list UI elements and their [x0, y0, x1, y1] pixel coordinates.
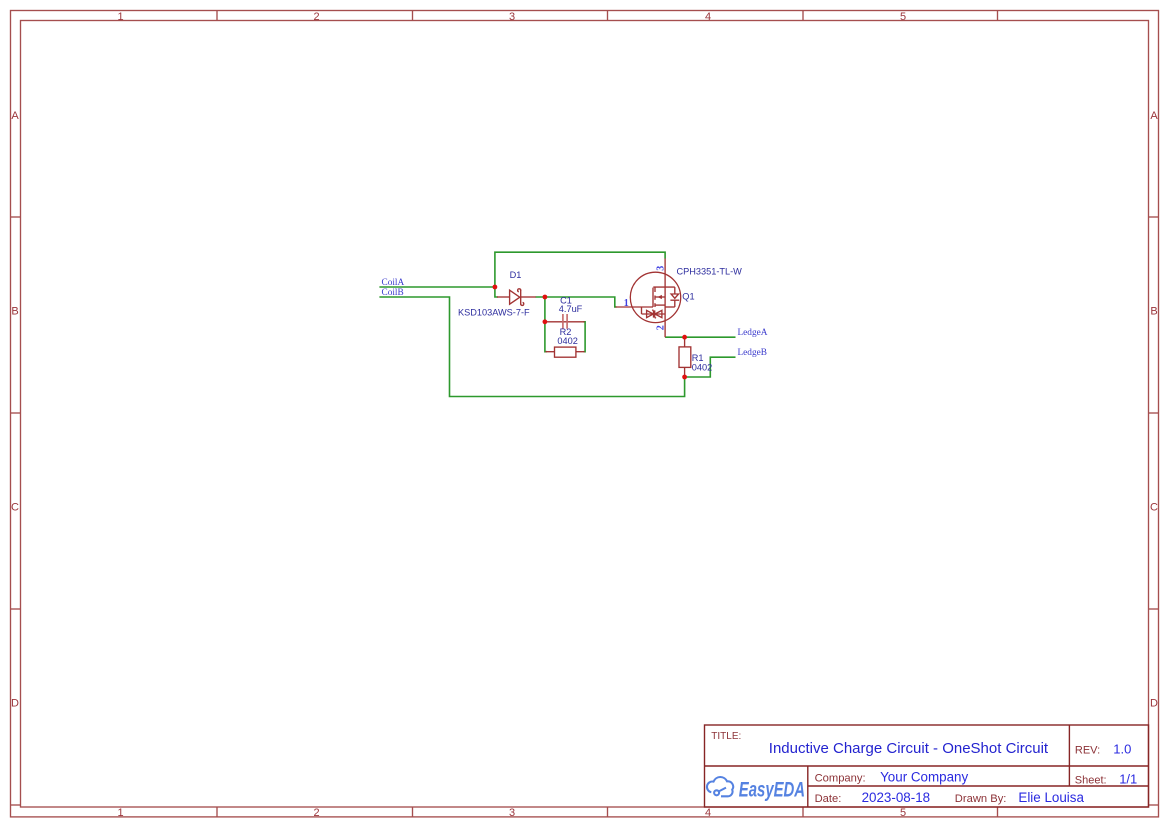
body diode lower stub	[674, 300, 676, 307]
title block outline	[705, 725, 1149, 807]
esd right triangle	[655, 310, 662, 317]
svg-text:3: 3	[509, 11, 515, 23]
wire diode cathode to node B to gate step	[536, 297, 617, 307]
center vertical	[664, 287, 666, 297]
junction node D LedgeA/R1	[682, 335, 687, 340]
transistor Q1 CPH3351 body circle	[630, 272, 680, 322]
svg-text:LedgeA: LedgeA	[738, 328, 768, 338]
frame bottom ticks	[217, 807, 998, 817]
resistor R1	[679, 337, 691, 377]
svg-text:2: 2	[313, 11, 319, 23]
svg-text:0402: 0402	[557, 336, 577, 346]
diode D1 (schottky KSD103AWS)	[497, 289, 536, 306]
svg-text:1/1: 1/1	[1119, 772, 1137, 787]
frame left ticks	[11, 217, 21, 805]
source pin vertical	[664, 297, 666, 337]
wire top rail node A to Q1 drain	[495, 252, 665, 287]
pin3 drain lead	[664, 259, 666, 288]
channel dash middle	[654, 296, 656, 300]
svg-text:Date:: Date:	[815, 793, 842, 805]
body diode upper stub	[674, 287, 676, 294]
junction node E R1 bottom	[682, 375, 687, 380]
gate pin lead	[616, 306, 654, 308]
EasyEDA logo cloud	[707, 777, 733, 796]
svg-text:CPH3351-TL-W: CPH3351-TL-W	[677, 267, 743, 277]
svg-text:Company:: Company:	[815, 773, 866, 785]
svg-text:TITLE:: TITLE:	[711, 731, 741, 742]
gate bar	[652, 288, 654, 307]
svg-text:1: 1	[624, 298, 629, 309]
svg-text:4.7uF: 4.7uF	[559, 304, 583, 314]
wire LedgeA	[665, 336, 735, 338]
body line	[655, 296, 665, 298]
svg-text:1: 1	[117, 807, 123, 819]
esd line	[642, 313, 666, 315]
svg-text:Elie Louisa: Elie Louisa	[1018, 790, 1084, 805]
svg-text:4: 4	[705, 11, 711, 23]
svg-text:D: D	[1150, 698, 1158, 710]
wire C1 right side down to R2 right	[584, 322, 586, 352]
svg-text:Sheet:: Sheet:	[1075, 775, 1107, 787]
svg-text:3: 3	[509, 807, 515, 819]
body arrow	[657, 295, 662, 299]
wire node B down through node C to R2 left	[545, 297, 547, 352]
svg-text:D: D	[11, 698, 19, 710]
junction node A	[493, 285, 498, 290]
wire node A down to diode level	[495, 287, 498, 297]
channel dash bottom	[654, 303, 656, 307]
EasyEDA logo text	[739, 778, 805, 801]
frame column labels bottom	[117, 807, 906, 819]
svg-text:REV:: REV:	[1075, 745, 1100, 757]
wire CoilB run	[379, 297, 684, 397]
svg-text:3: 3	[656, 266, 667, 271]
frame row labels right	[1150, 110, 1158, 710]
frame column labels top	[117, 11, 906, 23]
svg-text:Your Company: Your Company	[880, 770, 968, 785]
frame top ticks	[217, 11, 998, 21]
wire CoilA horizontal	[379, 286, 495, 288]
svg-text:2023-08-18: 2023-08-18	[862, 790, 931, 805]
capacitor C1	[546, 314, 585, 329]
frame row labels left	[11, 110, 19, 710]
svg-text:4: 4	[705, 807, 711, 819]
svg-text:5: 5	[900, 807, 906, 819]
esd left triangle	[647, 310, 654, 317]
svg-text:0402: 0402	[692, 362, 712, 372]
svg-text:C: C	[11, 502, 19, 514]
frame right ticks	[1149, 217, 1159, 805]
svg-text:1: 1	[117, 11, 123, 23]
svg-text:C: C	[1150, 502, 1158, 514]
svg-text:2: 2	[656, 325, 667, 330]
svg-text:LedgeB: LedgeB	[738, 348, 767, 358]
transistor Q1 internals	[616, 259, 680, 338]
wire LedgeB from R1 bottom	[685, 357, 736, 377]
svg-text:5: 5	[900, 11, 906, 23]
svg-text:CoilA: CoilA	[382, 278, 405, 288]
source horizontal	[655, 304, 665, 306]
bottom link	[665, 306, 675, 308]
svg-text:KSD103AWS-7-F: KSD103AWS-7-F	[458, 307, 530, 317]
svg-text:D1: D1	[510, 270, 522, 280]
junction node C	[543, 319, 548, 324]
junction node B	[543, 295, 548, 300]
svg-text:A: A	[1150, 110, 1158, 122]
svg-text:CoilB: CoilB	[382, 288, 404, 298]
svg-text:Drawn By:: Drawn By:	[955, 793, 1007, 805]
body diode bar	[670, 299, 679, 301]
svg-text:EasyEDA: EasyEDA	[739, 778, 805, 801]
svg-text:1.0: 1.0	[1113, 742, 1131, 757]
body diode triangle	[671, 294, 678, 298]
svg-text:A: A	[11, 110, 19, 122]
svg-text:Inductive Charge Circuit - One: Inductive Charge Circuit - OneShot Circu…	[769, 740, 1049, 757]
svg-text:B: B	[1150, 306, 1157, 318]
svg-text:Q1: Q1	[682, 292, 694, 302]
resistor R2	[546, 347, 585, 357]
svg-text:2: 2	[313, 807, 319, 819]
svg-text:B: B	[11, 306, 18, 318]
esd zener bars	[653, 310, 655, 317]
channel dash top	[654, 287, 656, 292]
drain horizontal	[653, 286, 675, 288]
esd tap vertical	[641, 307, 643, 314]
